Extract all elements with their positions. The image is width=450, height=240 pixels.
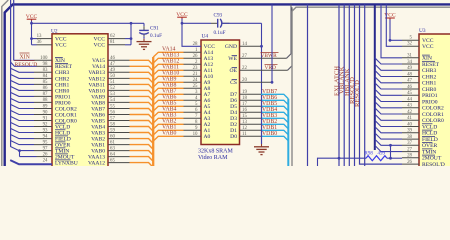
U4 pin number 1 (195, 48, 198, 53)
U4 pin number 24 (193, 78, 198, 83)
U2 designator (51, 29, 58, 35)
U4 pin name D1 (230, 128, 237, 134)
U2 pin name VAB1 (91, 143, 105, 149)
svg-text:COLOR2: COLOR2 (422, 106, 444, 112)
svg-text:38: 38 (407, 135, 412, 140)
svg-text:91: 91 (43, 116, 48, 121)
U3 pin name RESET (422, 61, 440, 68)
U2 pin number 26 (43, 152, 48, 157)
wire VDB6 (240, 100, 289, 105)
pin stub U4 5 (184, 105, 202, 107)
U4 pin name A3 (204, 116, 211, 122)
pin stub U3 46 (402, 88, 419, 90)
U4 pin number 28 (193, 42, 198, 47)
U2 pin name VCC (right) (93, 37, 105, 49)
U4 pin name A11 (204, 68, 214, 74)
svg-text:PRIO0: PRIO0 (422, 99, 438, 105)
U2 pin number 24 (43, 158, 48, 163)
U2 pin number 47 (110, 62, 115, 67)
U2 pin name VA14 (92, 64, 105, 70)
power VCC (U2 left) (26, 14, 38, 21)
bus entry U3 row CHR2 (375, 70, 402, 76)
wire to U2 pin 24 (10, 160, 52, 164)
U4 pin number 18 (242, 96, 247, 101)
U2 pin name PRIO1 (55, 94, 71, 100)
svg-text:A0: A0 (204, 134, 211, 140)
pin stub U4 25 (184, 87, 202, 89)
U2 pin number 93 (43, 128, 48, 133)
pin stub U4 1 (184, 51, 202, 53)
net label VAB10 (162, 71, 179, 77)
svg-text:VCC: VCC (93, 37, 105, 43)
svg-text:VCC: VCC (422, 44, 434, 50)
bus entry VAB9 (153, 82, 183, 87)
wire VDB4 (240, 112, 289, 117)
U3 pin name OVER (422, 143, 437, 150)
U2 pin name FIELD (55, 136, 71, 143)
svg-text:43: 43 (407, 104, 412, 109)
net label RESOL'D 2 (vertical) (354, 80, 361, 107)
bus entry U3 row VCLD (375, 120, 402, 126)
net label VBLANK (vertical) (339, 66, 346, 94)
U4 pin number 22 (242, 66, 247, 71)
U4 pin number 13 (242, 120, 247, 125)
svg-text:0.1uF: 0.1uF (214, 30, 226, 36)
svg-text:36: 36 (37, 40, 42, 45)
U2 pin name VAB5 (91, 118, 105, 124)
pin stub U3 41 (402, 119, 419, 121)
U4 pin name A4 (204, 110, 211, 116)
net label XIN (20, 53, 31, 60)
wire/bus-entry to U2 pin 95 (10, 140, 52, 144)
svg-text:47: 47 (407, 79, 412, 84)
bus entry U3 row PRIO0 (375, 95, 402, 101)
pin stub U3 45 (402, 94, 419, 96)
wire/bus-entry to U2 pin 97 (10, 146, 52, 156)
U4 pin number 7 (195, 114, 198, 119)
bus entry U3 row COLOR1 (375, 108, 402, 114)
pin stub U4 21 (184, 75, 202, 77)
U2 pin number 54 (110, 98, 115, 103)
svg-text:62: 62 (110, 34, 115, 39)
U3 pin name CHR0 (422, 87, 437, 93)
svg-text:OVER: OVER (422, 143, 437, 149)
pin stub U4 6 (184, 111, 202, 113)
U4 pin number 25 (193, 84, 198, 89)
U2 pin number 46 (110, 56, 115, 61)
svg-text:24: 24 (43, 158, 48, 163)
U3 pin number 37 (407, 141, 412, 146)
power VCC (U3) (384, 13, 396, 20)
wire U2 VAB3 to address bus (108, 133, 153, 138)
U2 pin number 94 (43, 134, 48, 139)
U4 pin name A9 (204, 80, 211, 86)
svg-text:PRIO1: PRIO1 (422, 93, 438, 99)
net label VAB8 (162, 83, 176, 89)
wire x381 to U3 XIN (381, 4, 402, 57)
bus entry VAB8 (153, 88, 183, 93)
U2 pin number 85 (43, 80, 48, 85)
U2 pin name VAB9 (91, 94, 105, 100)
pin stub U3 39 (402, 132, 419, 134)
wire VCC drop to U2 right pins (130, 23, 133, 45)
U4 pin number 2 (195, 60, 198, 65)
U4 pin name A13 (204, 56, 214, 62)
U2 pin name CHR1 (55, 82, 70, 88)
wire U2 VAB2 to address bus (108, 139, 153, 144)
ground (U4) (254, 144, 269, 155)
wire net RESOL'D to U2 pin 98 (11, 62, 52, 66)
svg-text:VAA12: VAA12 (88, 161, 105, 167)
bus entry VAB12 (153, 64, 183, 69)
svg-text:94: 94 (43, 134, 48, 139)
U2 pin name OVER (55, 142, 70, 149)
svg-text:U3: U3 (419, 28, 426, 34)
wire/bus-entry to U2 pin 88 (10, 98, 52, 102)
U4 pin name A2 (204, 122, 211, 128)
svg-text:37: 37 (407, 141, 412, 146)
bus entry VAB11 (153, 70, 183, 75)
U3 pin number 31 (407, 54, 412, 59)
svg-text:100: 100 (40, 56, 48, 61)
U4 pin number 16 (242, 108, 247, 113)
bus entry VAB2 (153, 124, 183, 129)
U3 pin name CHR1 (422, 81, 437, 87)
svg-text:85: 85 (43, 80, 48, 85)
U4 pin number 3 (195, 90, 198, 95)
power VCC (U4) (176, 12, 188, 19)
svg-text:U4: U4 (202, 34, 209, 40)
wire VDB5 (240, 106, 289, 111)
wire U2 VAB6 to address bus (108, 115, 153, 120)
svg-text:CHR0: CHR0 (422, 87, 437, 93)
U3 pin number 49 (407, 66, 412, 71)
U2 pin name VAB7 (91, 106, 105, 112)
net label VDB3 (262, 113, 277, 119)
wire U2 VAB9 to address bus (108, 96, 153, 101)
wire U2 VAB7 to address bus (108, 109, 153, 114)
control bus vertical (navy) (374, 4, 376, 150)
U2 pin name VAB13 (88, 70, 105, 76)
wire U2 VAB4 to address bus (108, 127, 153, 132)
wire/bus-entry to U2 pin 93 (10, 128, 52, 132)
U2 pin name VAB8 (91, 100, 105, 106)
svg-text:RESOL'D: RESOL'D (422, 162, 445, 166)
svg-text:32: 32 (407, 42, 412, 47)
U3 pin name PRIO1 (422, 93, 438, 99)
net label VAB2 (162, 119, 176, 125)
U2 pin name VAB6 (91, 112, 105, 118)
wire U2 VAB0 to address bus (108, 151, 153, 156)
svg-text:89: 89 (43, 104, 48, 109)
svg-text:U2: U2 (51, 29, 58, 35)
U4 pin name A12 (204, 62, 214, 68)
U3 pin number 38 (407, 135, 412, 140)
pin stub U3 31 (402, 57, 419, 59)
svg-text:499: 499 (378, 152, 386, 157)
bus entry U3 row FIELD (375, 133, 402, 139)
U2 pin number 50 (110, 74, 115, 79)
U2 pin number 63 (110, 146, 115, 151)
pin stub U4 2 (184, 63, 202, 65)
net label VDB5 (262, 101, 277, 107)
U2 pin number 53 (110, 92, 115, 97)
U4 pin name WE (228, 56, 237, 63)
U3 pin number 46 (407, 85, 412, 90)
U2 pin number 56 (110, 110, 115, 115)
svg-text:XIN: XIN (422, 56, 432, 62)
bus entry U3 row CHR1 (375, 77, 402, 83)
U2 pin number 89 (43, 104, 48, 109)
U2 pin name COLOR2 (55, 106, 77, 112)
U2 pin number 55 (110, 104, 115, 109)
pin stub U4 24 (184, 81, 202, 83)
svg-text:C93: C93 (214, 12, 223, 18)
bus entry U3 row CHR0 (375, 83, 402, 89)
ground (C91) (137, 39, 152, 50)
wire VCC vertical to U2 pins (30, 21, 33, 45)
svg-text:VBWR: VBWR (261, 53, 278, 59)
U2 pin name VAB2 (91, 137, 105, 143)
IC U3 body (419, 34, 450, 168)
pin stub U4 3 (184, 93, 202, 95)
wire/bus-entry to U2 pin 90 (10, 110, 52, 114)
svg-text:13: 13 (37, 34, 42, 39)
bus entry U3 row COLOR0 (375, 114, 402, 120)
U2 pin name TMIN (55, 148, 69, 155)
svg-text:CHR3: CHR3 (55, 70, 70, 76)
U3 pin 32 (407, 42, 412, 47)
net label VDB6 (262, 95, 277, 101)
U4 pin number 21 (193, 72, 198, 77)
U4 pin number 10 (193, 132, 198, 137)
U2 pin 81 (VCC right) (108, 40, 131, 45)
U4 pin name D4 (230, 110, 237, 116)
wire VDB3 (240, 118, 289, 123)
wire/bus-entry to U2 pin 84 (10, 74, 52, 78)
U4 pin number 15 (242, 114, 247, 119)
wire VDB1 (240, 130, 289, 135)
svg-text:93: 93 (43, 128, 48, 133)
svg-text:RESOL'D: RESOL'D (15, 62, 38, 68)
net label VDB4 (262, 107, 277, 113)
U3 pin name COLOR0 (422, 118, 444, 124)
wire VCC to U4 pin 28 (181, 19, 201, 47)
wire GND vertical (260, 23, 263, 144)
wire vertical x349 (348, 4, 350, 166)
svg-text:VAB13: VAB13 (88, 70, 105, 76)
U4 pin name A10 (204, 74, 214, 80)
U3 pin name VCLD (422, 124, 437, 131)
U4 pin number 5 (195, 102, 198, 107)
pin stub U3 26 (402, 163, 419, 165)
net label VAB5 (162, 101, 176, 107)
U4 pin number 4 (195, 96, 198, 101)
svg-text:COLOR0: COLOR0 (422, 118, 444, 124)
U2 pin number 52 (110, 86, 115, 91)
svg-text:R98: R98 (365, 152, 374, 157)
wire VCC rail to C91 (32, 22, 145, 25)
svg-text:CS: CS (230, 80, 237, 86)
U2 pin name VAB3 (91, 130, 105, 136)
bus entry VAB3 (153, 118, 183, 123)
wire VCC to C93 (182, 22, 211, 24)
svg-text:31: 31 (407, 54, 412, 59)
pin stub U3 47 (402, 82, 419, 84)
wire U2 VAB8 to address bus (108, 102, 153, 107)
wire/bus-entry to U2 pin 92 (10, 122, 52, 126)
U2 pin number 86 (43, 86, 48, 91)
svg-text:97: 97 (43, 146, 48, 151)
U2 pin name CHR3 (55, 70, 70, 76)
bus entry U3 row HCLD (375, 127, 402, 133)
bus entry VAB10 (153, 76, 183, 81)
svg-text:Video RAM: Video RAM (198, 155, 228, 161)
U2 pin number 97 (43, 146, 48, 151)
pin stub U3 44 (402, 101, 419, 103)
svg-text:86: 86 (43, 86, 48, 91)
svg-text:FIELD: FIELD (422, 137, 438, 143)
svg-text:40: 40 (407, 122, 412, 127)
wire to U2 pin 26 (20, 156, 53, 158)
U3 pin name COLOR1 (422, 112, 444, 118)
wire U2 VAB11 to address bus (108, 84, 153, 89)
U2 pin name VA15 (92, 58, 105, 64)
wire net XIN to U2 pin 100 (14, 59, 52, 61)
U3 pin name COLOR2 (422, 106, 444, 112)
bus entry U3 row OVER (375, 139, 402, 145)
net label VAB6 (162, 95, 176, 101)
U2 pin name VCLD (55, 124, 70, 131)
wire VDB0 (240, 136, 289, 141)
net label VAB0 (162, 131, 176, 137)
pin stub U4 23 (184, 69, 202, 71)
net label VAB7 (162, 89, 176, 95)
U4 pin number 27 (242, 54, 247, 59)
pin stub U3 37 (402, 144, 419, 146)
U2 pin number 88 (43, 98, 48, 103)
U2 pin number 51 (110, 80, 115, 85)
wire vertical x354 (354, 4, 356, 166)
U3 pin number 47 (407, 79, 412, 84)
wire/bus-entry to U2 pin 87 (10, 92, 52, 96)
pin stub U3 34 (402, 63, 419, 65)
U2 pin number 58 (110, 122, 115, 127)
svg-text:VRD: VRD (265, 65, 276, 71)
U4 pin number 23 (193, 66, 198, 71)
U2 pin name 2MOUT (55, 154, 75, 161)
svg-text:27: 27 (407, 147, 412, 152)
pin stub U4 9 (184, 129, 202, 131)
U2 pin name CHR2 (55, 76, 70, 82)
U4 pin number 6 (195, 108, 198, 113)
wire x386 to U3 pin 12 (386, 4, 419, 46)
U4 pin name VCC (204, 44, 216, 50)
U3 designator (419, 28, 426, 34)
wire GND vertical (over labels) (261, 95, 263, 144)
svg-text:COLOR1: COLOR1 (422, 112, 444, 118)
pin stub U4 4 (184, 99, 202, 101)
svg-text:87: 87 (43, 92, 48, 97)
U2 pin number 95 (43, 140, 48, 145)
U4 pin number 9 (195, 126, 198, 131)
svg-text:34: 34 (407, 60, 412, 65)
svg-text:44: 44 (407, 97, 412, 102)
U3 pin number 42 (407, 110, 412, 115)
net label VDB2 (262, 119, 277, 125)
svg-text:VAB0: VAB0 (162, 131, 176, 137)
svg-text:32Kx8 SRAM: 32Kx8 SRAM (198, 148, 234, 154)
net label VAB13 (162, 53, 179, 59)
wire vertical x359 to RESOL'D (360, 4, 403, 164)
wire U2 VAB5 to address bus (108, 121, 153, 126)
U3 pin number 48 (407, 72, 412, 77)
U2 pin 13 (VCC) (32, 34, 53, 39)
pin stub U4 7 (184, 117, 202, 119)
svg-text:83: 83 (43, 68, 48, 73)
U2 pin name VAA12 (88, 161, 105, 167)
net label VAB9 (162, 77, 176, 83)
svg-text:VCC: VCC (55, 43, 67, 49)
U4 pin name A14 (204, 50, 214, 56)
U3 pin number 34 (407, 60, 412, 65)
U4 pin name D7 (230, 92, 237, 98)
wire U2 VAA12 to address bus (108, 163, 153, 168)
wire VRD (240, 7, 293, 70)
wire U4 GND pin14 (240, 45, 262, 47)
net label VAB4 (162, 107, 176, 113)
U4 pin name D6 (230, 98, 237, 104)
svg-text:81: 81 (110, 40, 115, 45)
U2 pin number 64 (110, 152, 115, 157)
U2 pin name COLOR1 (55, 112, 77, 118)
wire U2 VAB12 to address bus (108, 78, 153, 83)
net label VDB1 (262, 125, 277, 131)
U4 pin name A8 (204, 86, 211, 92)
wire U2 VAB10 to address bus (108, 90, 153, 95)
U4 pin number 12 (242, 126, 247, 131)
U2 pin name HCLD (55, 130, 70, 137)
address bus VAB (orange) (152, 57, 154, 166)
U2 pin number 84 (43, 74, 48, 79)
U4 pin name D3 (230, 116, 237, 122)
bus entry VA14 (153, 52, 183, 57)
U2 pin number 59 (110, 128, 115, 133)
IC U4 body (201, 40, 240, 145)
pin stub U3 40 (402, 126, 419, 128)
U4 pin number 26 (193, 54, 198, 59)
svg-text:28: 28 (407, 154, 412, 159)
svg-text:VAB3: VAB3 (91, 130, 105, 136)
pin stub U3 43 (402, 107, 419, 109)
svg-text:95: 95 (43, 140, 48, 145)
U4 caption (198, 148, 234, 161)
U3 pin number 27 (407, 147, 412, 152)
pin stub U3 27 (402, 151, 419, 153)
net label RESOL'D (15, 61, 38, 68)
svg-text:48: 48 (407, 72, 412, 77)
bus entry VAB1 (153, 130, 183, 135)
wire/bus-entry to U2 pin 89 (10, 104, 52, 108)
capacitor C93 (211, 19, 230, 28)
U3 pin number 43 (407, 104, 412, 109)
U2 pin name VAB12 (88, 76, 105, 82)
bus entry U3 row PRIO1 (375, 89, 402, 95)
U2 pin number 65 (110, 158, 115, 163)
U2 pin number 92 (43, 122, 48, 127)
svg-text:26: 26 (43, 152, 48, 157)
net label VDB0 (262, 131, 277, 137)
